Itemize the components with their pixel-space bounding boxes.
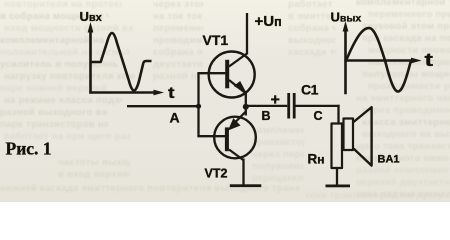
svg-text:Rн: Rн: [308, 152, 325, 167]
svg-text:A: A: [170, 110, 180, 126]
svg-text:Uвых: Uвых: [331, 10, 362, 25]
svg-text:C: C: [314, 109, 323, 123]
svg-text:B: B: [262, 109, 271, 123]
svg-text:+: +: [271, 92, 280, 109]
svg-text:BA1: BA1: [378, 154, 400, 166]
svg-text:VT1: VT1: [203, 32, 229, 48]
svg-text:t: t: [425, 50, 434, 70]
svg-text:C1: C1: [301, 82, 319, 98]
svg-text:Рис. 1: Рис. 1: [6, 139, 52, 159]
svg-text:+Uп: +Uп: [255, 13, 282, 30]
svg-text:VT2: VT2: [205, 167, 228, 181]
svg-text:Uвх: Uвх: [80, 9, 103, 24]
svg-text:t: t: [168, 85, 175, 102]
